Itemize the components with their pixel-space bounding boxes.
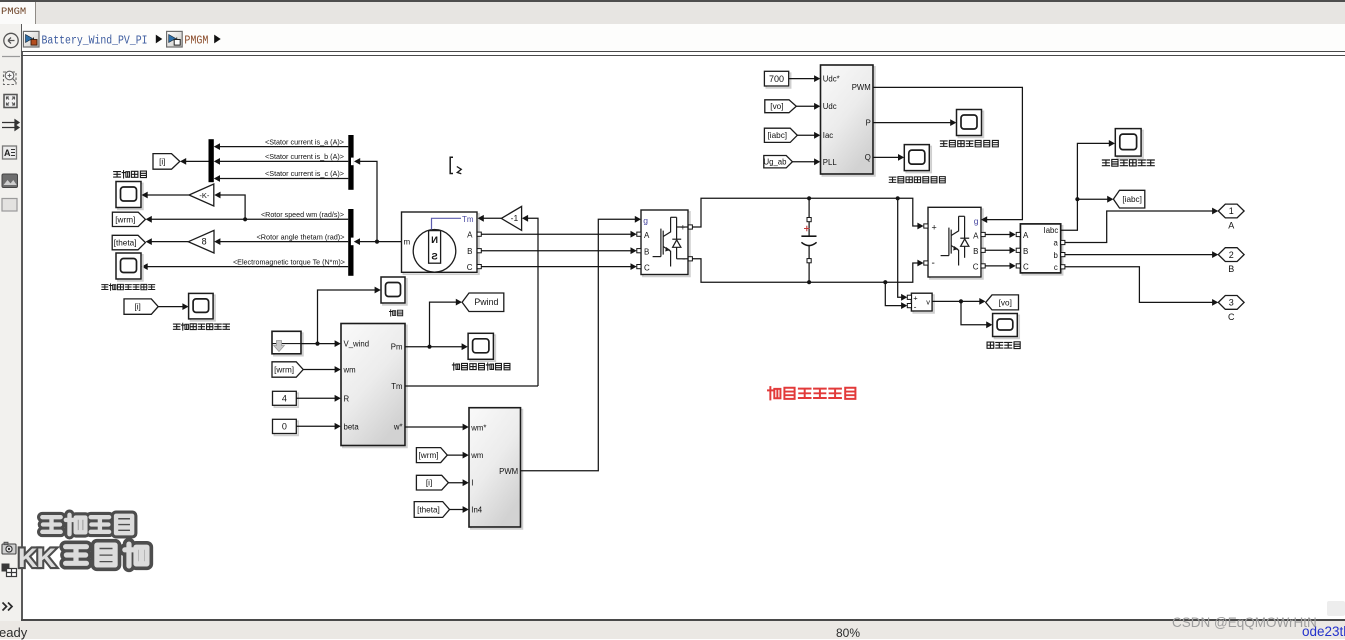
wire stator is_c <box>216 178 348 180</box>
wire vwind <box>301 343 338 345</box>
svg-text:Ug_ab: Ug_ab <box>764 158 788 167</box>
svg-text:beta: beta <box>344 422 360 431</box>
wire <box>808 198 810 217</box>
svg-text:A: A <box>467 231 473 240</box>
svg-text:[i]: [i] <box>134 303 140 312</box>
wire Tm right <box>405 385 538 387</box>
label dianji de dianci zhuanju <box>102 284 155 290</box>
arrow into inverter g <box>981 216 987 223</box>
wire iabc to Iac <box>797 134 817 136</box>
wire i to current scope <box>158 306 186 308</box>
wire wrm to wm <box>447 454 466 456</box>
wire wrm branch to gain <box>217 195 245 219</box>
wire to iabc tag <box>1077 198 1110 200</box>
label zhiliu dianya <box>987 342 1020 349</box>
from tag [wrm] pwm <box>416 448 447 463</box>
svg-text:B: B <box>644 247 649 256</box>
wire <box>808 246 810 259</box>
svg-text:Udc: Udc <box>823 102 837 111</box>
svg-text:A: A <box>1228 221 1234 231</box>
wire 0 to beta <box>296 425 338 427</box>
from tag [i] pwm <box>416 475 448 490</box>
svg-text:B: B <box>1228 264 1234 274</box>
wire w* to wm* <box>405 426 466 428</box>
wire wrm to wm <box>303 369 338 371</box>
wire rotor angle <box>217 241 348 243</box>
wire P to scope <box>873 122 954 124</box>
label wangce de yougong gonglu <box>940 140 998 146</box>
svg-text:[vo]: [vo] <box>770 102 783 111</box>
label dianji de sanxiang dianliu <box>173 323 229 330</box>
svg-text:PWM: PWM <box>499 467 518 476</box>
watermark luxiangji <box>66 544 147 566</box>
PMSM icon circle <box>413 230 456 273</box>
svg-text:Iabc: Iabc <box>1044 226 1059 235</box>
svg-text:4: 4 <box>282 394 287 404</box>
svg-text:700: 700 <box>769 74 784 84</box>
universal bridge inverter <box>930 209 983 279</box>
svg-text:In4: In4 <box>471 506 483 515</box>
toolbar fit-to-view icon <box>4 95 17 108</box>
watermark luzhi gongju <box>42 515 132 534</box>
wire <box>808 222 810 236</box>
wire gain to speed scope <box>145 194 190 196</box>
svg-text:[i]: [i] <box>426 479 432 488</box>
svg-text:Tm: Tm <box>462 215 474 224</box>
svg-text:V_wind: V_wind <box>344 340 370 349</box>
gain 8 <box>188 230 214 253</box>
label fengli de shuchu gonglu <box>452 363 510 370</box>
svg-text:C: C <box>1023 262 1029 271</box>
wire a to outport 1 <box>1065 211 1215 243</box>
wire bus to selector 1 <box>357 161 377 241</box>
wire i <box>448 482 466 484</box>
svg-text:[wrm]: [wrm] <box>419 451 439 460</box>
toolbar connect icon <box>2 120 19 130</box>
wire junction <box>1075 197 1079 201</box>
from tag [theta] pwm <box>414 502 449 518</box>
svg-text:Iac: Iac <box>823 131 834 140</box>
goto tag [i] motor current <box>153 154 180 170</box>
svg-text:[iabc]: [iabc] <box>1122 195 1142 204</box>
mouse cursor <box>450 157 461 174</box>
svg-text:A: A <box>4 148 11 158</box>
toolbar annotation icon <box>3 146 17 159</box>
wire Iabc up <box>1061 143 1112 230</box>
svg-text:2: 2 <box>1229 250 1234 260</box>
universal bridge rectifier <box>643 212 690 277</box>
svg-text:P: P <box>866 118 871 127</box>
wire junction <box>243 217 247 221</box>
svg-text:-: - <box>682 254 685 265</box>
goto tag [theta] 1 <box>112 235 145 250</box>
svg-text:S: S <box>431 252 437 263</box>
scope <box>470 335 495 361</box>
wire mux out to [i] <box>182 160 209 162</box>
wire vo to Udc <box>796 105 817 107</box>
label dianji zhuansu <box>114 171 147 178</box>
goto tag [vo] <box>986 295 1019 310</box>
scope <box>118 255 143 281</box>
svg-text:m: m <box>404 238 411 247</box>
svg-text:Battery_Wind_PV_PI: Battery_Wind_PV_PI <box>42 35 148 48</box>
svg-text:PWM: PWM <box>852 83 871 92</box>
svg-text:B: B <box>973 247 978 256</box>
wire c to outport 3 <box>1065 267 1215 303</box>
scope <box>995 315 1020 338</box>
toolbar library icon <box>2 564 17 577</box>
svg-text:C: C <box>973 262 979 271</box>
svg-text:wm: wm <box>343 366 356 375</box>
scope <box>191 295 216 321</box>
PMSM machine block <box>403 214 479 274</box>
toolbar back button <box>4 33 18 47</box>
wire 4 to R <box>296 397 338 399</box>
wire junction <box>959 299 963 303</box>
gain -1 <box>501 206 521 230</box>
from tag [iabc] top <box>764 128 797 142</box>
svg-text:a: a <box>1053 239 1058 248</box>
toolbar box icon <box>2 199 17 212</box>
wire b to outport 2 <box>1065 254 1215 256</box>
svg-text:c: c <box>1054 263 1058 272</box>
wire -1 out to Tm <box>481 217 502 219</box>
goto tag Pwind <box>462 293 504 312</box>
grid-side control subsystem <box>822 67 875 176</box>
svg-text:<Rotor speed wm (rad/s)>: <Rotor speed wm (rad/s)> <box>261 210 344 219</box>
scope <box>1117 131 1143 159</box>
wire to vm plus <box>898 198 905 297</box>
bus creator (mux) bar <box>209 139 214 182</box>
wire inv B <box>985 249 1013 251</box>
outport 1 (A) <box>1218 204 1244 218</box>
wire electromagnetic torque <box>145 266 349 268</box>
wire to wind scope <box>318 290 379 344</box>
wire junction <box>315 342 319 346</box>
svg-text:b: b <box>1053 251 1058 260</box>
wire gain8 to theta <box>149 241 189 243</box>
svg-text:-: - <box>914 302 917 312</box>
svg-text:Pwind: Pwind <box>474 297 498 307</box>
svg-text:Pm: Pm <box>391 343 403 352</box>
svg-text:B: B <box>1023 247 1028 256</box>
svg-text:[theta]: [theta] <box>417 505 440 514</box>
label wangce sanxiang dianliu <box>1102 159 1154 166</box>
svg-text:wm*: wm* <box>470 423 486 432</box>
wire Q to scope <box>873 156 902 158</box>
gain -K- <box>189 184 214 206</box>
from tag Ug_ab <box>764 156 793 168</box>
svg-text:Q: Q <box>865 153 871 162</box>
toolbar image icon <box>2 174 18 188</box>
wire inv C <box>985 265 1013 267</box>
label wangce de wugong gonglu <box>889 177 945 183</box>
wire rotor speed wm <box>149 218 349 220</box>
wire phase C <box>481 266 635 268</box>
svg-text:<Stator current is_c (A)>: <Stator current is_c (A)> <box>265 169 344 178</box>
bus selector 1 (stator currents) <box>348 135 353 190</box>
svg-text:I: I <box>471 479 473 488</box>
constant 0 <box>274 421 298 435</box>
wire to Pwind <box>430 302 460 347</box>
wire junction <box>896 196 900 200</box>
wire to dc volt scope <box>961 301 990 324</box>
breadcrumb separator arrow 2 <box>214 35 221 44</box>
scope <box>118 183 143 209</box>
svg-text:v: v <box>926 298 930 307</box>
outport 3 (C) <box>1218 296 1244 310</box>
breadcrumb model icon 2 <box>167 31 183 47</box>
from tag [wrm] wind <box>272 362 303 377</box>
breadcrumb model icon 1 <box>23 31 39 47</box>
svg-text:3: 3 <box>1229 298 1234 308</box>
constant 700 <box>766 73 790 88</box>
wire vm out <box>932 300 983 302</box>
svg-text:<Stator current is_a (A)>: <Stator current is_a (A)> <box>265 137 344 146</box>
wire ugab to PLL <box>792 161 817 163</box>
scope <box>906 147 931 173</box>
svg-text:w*: w* <box>393 423 403 432</box>
toolbar separator <box>2 56 20 58</box>
wire to vm minus <box>885 282 905 305</box>
wind turbine subsystem <box>343 325 407 447</box>
svg-text:A: A <box>1023 231 1029 240</box>
breadcrumb separator arrow 1 <box>156 35 163 44</box>
svg-text:g: g <box>643 216 648 226</box>
voltage measurement block <box>913 295 934 313</box>
from tag [i] 2 <box>124 299 158 314</box>
svg-text:[iabc]: [iabc] <box>768 131 788 140</box>
wire theta <box>450 509 467 511</box>
wind source block <box>274 333 303 356</box>
svg-text:<Stator current is_b (A)>: <Stator current is_b (A)> <box>265 152 344 161</box>
svg-text:<Electromagnetic torque Te (N*: <Electromagnetic torque Te (N*m)> <box>233 257 345 266</box>
wire stator is_a <box>216 146 348 148</box>
svg-text:A: A <box>644 231 650 240</box>
wire <box>808 263 810 282</box>
svg-text:PMGM: PMGM <box>184 35 208 48</box>
svg-text:[i]: [i] <box>159 157 165 166</box>
svg-text:[vo]: [vo] <box>999 298 1012 307</box>
svg-text:C: C <box>1228 312 1235 322</box>
svg-text:B: B <box>467 247 472 256</box>
toolbar zoom icon <box>4 71 17 84</box>
wire dc minus rail <box>692 259 921 282</box>
scope <box>383 279 407 305</box>
svg-text:C: C <box>467 263 473 272</box>
from tag [vo] top <box>765 100 797 113</box>
toolbar camera icon <box>2 542 16 554</box>
svg-text:g: g <box>974 216 979 226</box>
constant 4 <box>274 393 298 407</box>
wire junction <box>883 280 887 284</box>
svg-text:R: R <box>344 394 350 403</box>
PMSM Tm blue link <box>432 218 462 229</box>
svg-text:8: 8 <box>202 237 207 247</box>
svg-text:wm: wm <box>470 451 483 460</box>
svg-text:CSDN @EqQMOWrHtN: CSDN @EqQMOWrHtN <box>1172 615 1317 630</box>
svg-text:N: N <box>431 235 438 246</box>
svg-text:[wrm]: [wrm] <box>274 365 294 374</box>
svg-text:1: 1 <box>1229 206 1234 216</box>
wire <box>357 241 402 243</box>
annotation fengli fadian moxing (red) <box>768 387 855 399</box>
wire junction <box>807 196 811 200</box>
wire phase B <box>481 250 635 252</box>
wire junction <box>427 345 431 349</box>
scope <box>958 111 983 137</box>
svg-text:Tm: Tm <box>391 382 402 391</box>
svg-text:-: - <box>932 258 935 269</box>
wire dc plus rail <box>692 198 921 227</box>
toolbar expand chevrons <box>3 603 13 611</box>
three-phase VI measurement block <box>1022 226 1062 275</box>
wire 700 to Udc* <box>789 78 818 80</box>
wire Tm up from turbine <box>525 218 538 386</box>
label fengsu <box>390 310 403 316</box>
svg-text:-K-: -K- <box>199 191 210 200</box>
svg-text:-1: -1 <box>511 213 519 223</box>
outport 2 (B) <box>1218 248 1244 262</box>
bus selector 2 (speed/angle/torque) <box>348 209 353 276</box>
arrow into rectifier g <box>635 216 641 223</box>
wire Pm <box>405 346 465 348</box>
svg-text:KK: KK <box>18 543 56 573</box>
svg-text:<Rotor angle thetam (rad)>: <Rotor angle thetam (rad)> <box>257 232 345 241</box>
svg-text:0: 0 <box>282 422 287 432</box>
machine-side PWM subsystem <box>471 410 523 529</box>
wire inv A <box>985 234 1013 236</box>
wire stator is_b <box>216 160 348 162</box>
svg-text:[wrm]: [wrm] <box>115 215 135 224</box>
svg-text:Udc*: Udc* <box>823 74 840 83</box>
svg-text:C: C <box>644 263 650 272</box>
goto tag [wrm] 1 <box>112 212 145 226</box>
wire junction <box>375 240 379 244</box>
svg-text:A: A <box>973 231 979 240</box>
goto tag [iabc] <box>1113 190 1144 208</box>
wire PWM to rectifier g <box>521 219 636 470</box>
svg-text:+: + <box>932 223 937 233</box>
wire phase A <box>481 233 635 235</box>
wire junction <box>807 280 811 284</box>
wire PWM to inverter g <box>873 87 1022 219</box>
svg-text:[theta]: [theta] <box>114 238 137 247</box>
svg-text:PLL: PLL <box>823 158 838 167</box>
